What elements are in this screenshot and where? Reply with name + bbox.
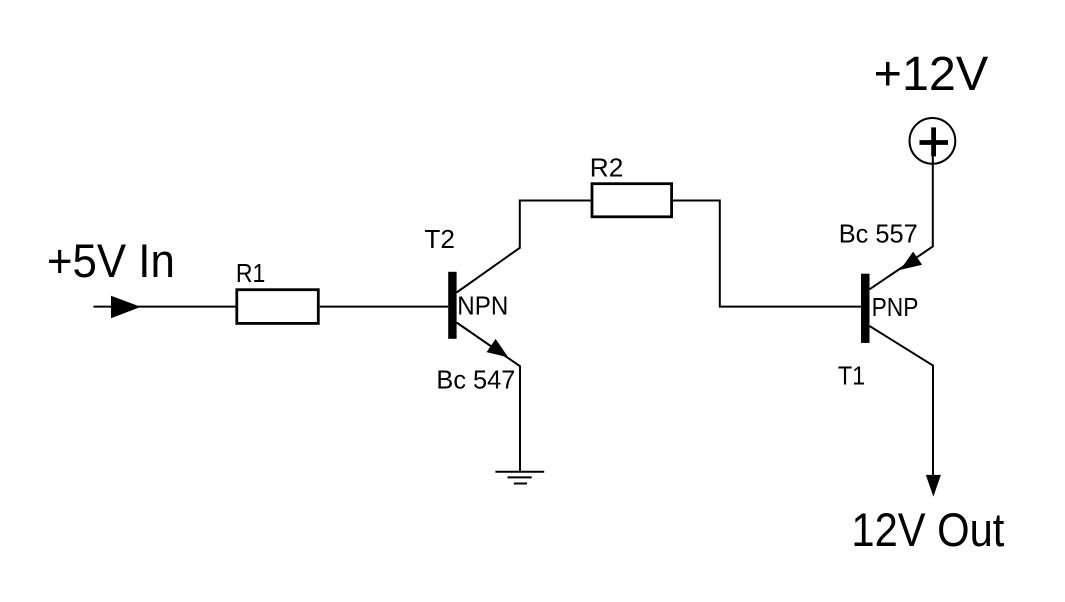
svg-text:+12V: +12V <box>874 48 989 101</box>
wire input <box>94 306 237 308</box>
svg-text:Bc 557: Bc 557 <box>839 219 918 249</box>
wire T2 emitter <box>457 323 520 472</box>
T1 emitter arrow <box>900 252 922 270</box>
svg-text:NPN: NPN <box>457 291 508 321</box>
svg-text:T2: T2 <box>424 224 455 254</box>
input arrow <box>111 296 141 319</box>
wire T1 collector output <box>870 326 934 476</box>
T2 emitter arrow <box>487 339 509 358</box>
svg-text:12V Out: 12V Out <box>851 503 1004 556</box>
ground <box>495 472 544 484</box>
transistor T2 base bar <box>448 272 456 339</box>
svg-text:T1: T1 <box>838 360 865 390</box>
transistor T1 base bar <box>861 274 870 343</box>
supply circle <box>910 118 956 164</box>
supply plus sign <box>920 127 949 156</box>
svg-text:R2: R2 <box>590 153 624 183</box>
svg-text:PNP: PNP <box>872 292 919 322</box>
output arrow <box>926 475 941 497</box>
wire +12V to T1 emitter <box>870 156 933 289</box>
wire T2 collector to R2 <box>457 201 591 293</box>
wire R2 to T1 base <box>673 201 861 307</box>
resistor R2 <box>592 184 672 217</box>
resistor R1 <box>237 290 318 324</box>
svg-text:Bc 547: Bc 547 <box>436 365 515 395</box>
svg-text:R1: R1 <box>236 258 266 288</box>
wire R1 to T2 base <box>320 306 449 308</box>
svg-text:+5V In: +5V In <box>47 234 175 287</box>
